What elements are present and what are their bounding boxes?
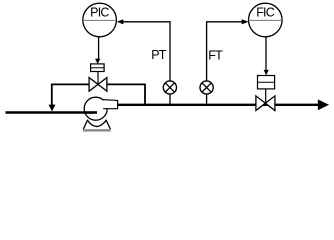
valve V1 actuator — [91, 64, 105, 72]
valve V2 body (bowtie) — [256, 89, 275, 111]
transmitter FT tap symbol — [200, 81, 213, 94]
transmitter PT tap symbol — [163, 81, 176, 94]
svg-text:FIC: FIC — [256, 6, 275, 20]
pump P1 discharge nozzle — [103, 100, 117, 109]
wire: recirculation line with valve V1 — [52, 84, 145, 106]
controller FIC bubble — [248, 3, 282, 37]
flow arrow at discharge line end — [318, 99, 329, 110]
svg-text:FT: FT — [208, 48, 223, 62]
wire: suction process line — [6, 111, 98, 114]
signal arrow into FIC — [242, 19, 249, 24]
signal line FT riser — [207, 22, 242, 104]
label FT — [208, 48, 223, 62]
pump P1 base — [83, 120, 111, 132]
controller FIC output signal — [264, 37, 269, 76]
signal line PT riser — [123, 22, 170, 104]
controller PIC bubble — [83, 3, 117, 37]
wire: discharge process line — [118, 104, 319, 106]
valve V2 actuator — [258, 76, 275, 89]
controller PIC output signal — [95, 37, 100, 64]
valve V1 body (bowtie) — [89, 72, 107, 92]
svg-text:PT: PT — [151, 48, 167, 62]
flow arrow into suction line — [49, 105, 56, 112]
label PT — [151, 48, 167, 62]
svg-text:PIC: PIC — [90, 6, 109, 20]
signal arrow into PIC — [117, 19, 124, 24]
pump P1 casing circle — [84, 97, 107, 120]
